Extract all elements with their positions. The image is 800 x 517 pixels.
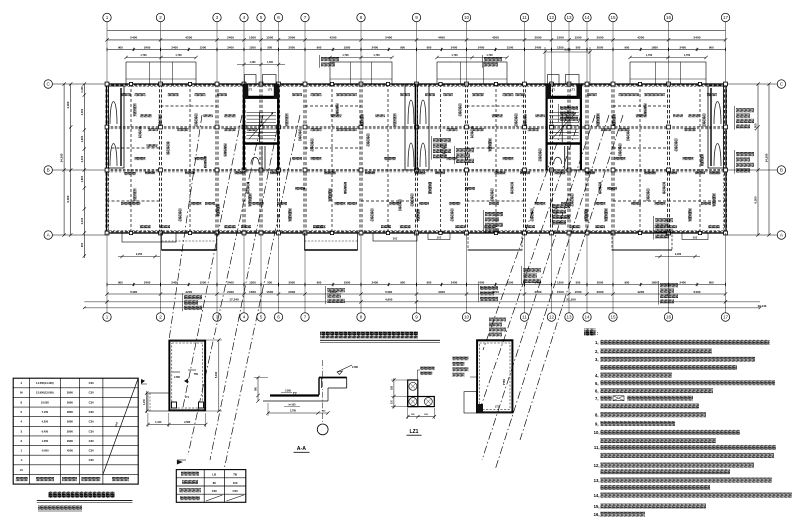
grid bubble 13 (bottom) [565,313,573,321]
bottom box shallow left [122,233,176,242]
stairwell ST2 corner blocks [546,84,551,98]
svg-text:1: 1 [106,15,109,20]
svg-text:1800: 1800 [344,45,351,49]
grid bubble 5 (top) [257,13,265,21]
svg-text:1500: 1500 [249,36,256,40]
svg-text:2: 2 [159,315,162,320]
svg-text:10,: 10, [594,430,600,435]
svg-text:6: 6 [277,15,280,20]
grid bubble 11 (bottom) [520,313,528,321]
svg-text:4: 4 [243,15,246,20]
bottom balcony deep 2 [305,233,358,250]
drawing title text [320,332,418,339]
svg-text:14,100: 14,100 [60,153,64,162]
stair detail 1 interior marks [172,371,180,373]
grid bubble 3 (bottom) [213,313,221,321]
grid bubble 1 (bottom) [103,313,111,321]
svg-text:LT1: LT1 [550,88,555,92]
svg-text:14: 14 [584,15,590,20]
svg-text:2400: 2400 [227,290,234,294]
stair detail 2 top text block [489,318,506,322]
shaft at grid 9 walls [405,84,429,170]
svg-text:4,: 4, [595,373,599,378]
dimension ticks+text bottom chain1 [106,283,108,286]
svg-text:6: 6 [277,315,280,320]
floor table title underline [37,499,133,501]
grid line 3 leader (bottom) [216,233,218,313]
row A leader (right) [726,234,777,236]
note line cont y471.6 [601,469,730,474]
grid line 7 leader (bottom) [304,233,306,313]
svg-text:-1: -1 [20,458,23,462]
stairwell ST1 lower landing arc [251,157,259,164]
svg-text:900: 900 [118,280,123,284]
svg-text:1500: 1500 [575,36,582,40]
svg-text:900: 900 [624,45,629,49]
grid bubble 17 (bottom) [721,313,729,321]
svg-text:1.350: 1.350 [42,439,49,443]
svg-text:C30: C30 [233,489,239,493]
svg-text:2000: 2000 [597,290,604,294]
grid bubble 6 (top) [274,13,282,21]
stair entry marks above ST2 [545,51,590,53]
svg-text:2A2: 2A2 [693,237,698,240]
svg-text:1800: 1800 [651,45,658,49]
grid line 12 leader (top) [551,22,553,84]
svg-text:6.450: 6.450 [42,429,49,433]
section A-A bottom dim [268,412,328,414]
left end shaft walls [109,86,125,168]
svg-text:2400: 2400 [451,280,458,284]
interior grid verticals dashed [105,84,107,233]
svg-text:LT1: LT1 [185,396,190,399]
grid bubble 7 (top) [301,13,309,21]
svg-text:1500: 1500 [575,290,582,294]
stairwell ST2 treads [549,112,579,114]
small table flag symbol [177,460,183,468]
grid line 13 leader (bottom) [568,233,570,313]
svg-text:2400: 2400 [451,45,458,49]
svg-text:C30: C30 [89,458,94,462]
svg-text:14,100: 14,100 [765,153,769,162]
floor table subtitle [38,506,82,510]
stair detail 1 inner dashed [172,343,203,408]
bottom balcony deep 1 [162,233,217,250]
svg-text:4,300: 4,300 [754,123,758,130]
grid line 11 leader (top) [524,22,526,84]
svg-text:2400: 2400 [227,280,234,284]
svg-text:1500: 1500 [557,36,564,40]
svg-text:2000: 2000 [288,36,295,40]
svg-text:-0.050: -0.050 [41,449,49,453]
stair detail 1 left dim [146,391,148,413]
row B leader (left) [53,169,107,171]
grid line 6 leader (top) [278,22,280,84]
partial beam row y=105 segments [161,105,218,107]
column LZ1 bottom dim [408,416,435,418]
svg-text:1,700: 1,700 [140,54,147,57]
shaft grid9 flue arc lower [408,143,414,167]
svg-text:1,100: 1,100 [80,86,84,93]
section A-A left dim [257,377,259,401]
svg-text:C30: C30 [89,420,94,424]
svg-text:LT1: LT1 [248,88,253,92]
svg-text:h=100: h=100 [289,403,297,406]
svg-text:C30: C30 [212,489,218,493]
grid bubble 12 (top) [547,13,555,21]
svg-text:1500: 1500 [557,290,564,294]
svg-text:7,: 7, [595,396,599,401]
wall row B dashed [107,169,727,171]
svg-text:LT1: LT1 [570,88,575,92]
wall row A dashed [107,231,727,233]
row bubble A (right) [777,231,785,239]
svg-text:5400: 5400 [385,36,392,40]
svg-text:2: 2 [159,15,162,20]
svg-text:LT1: LT1 [268,88,273,92]
row bubble C (left) [44,80,52,88]
extra annotation strips [121,93,131,96]
wall row C dashed [107,84,727,86]
svg-text:16: 16 [666,315,672,320]
svg-text:2850: 2850 [67,410,73,414]
svg-text:C30: C30 [89,429,94,433]
svg-text:8: 8 [360,315,363,320]
grid bubble 2 (top) [156,13,164,21]
grid line 15 leader (bottom) [612,233,614,313]
top balcony 1 dim [126,57,196,59]
svg-text:8: 8 [360,15,363,20]
svg-text:1500: 1500 [200,45,207,49]
svg-text:900: 900 [400,280,405,284]
svg-text:1500: 1500 [507,45,514,49]
grid bubble 8 (bottom) [357,313,365,321]
svg-text:1200: 1200 [249,280,256,284]
svg-text:12.950(13.000): 12.950(13.000) [36,391,54,395]
svg-text:17,240: 17,240 [229,297,239,301]
grid bubble 13 (top) [565,13,573,21]
beam annotation texts vertical [133,104,136,117]
svg-text:4200: 4200 [185,290,192,294]
bottom balcony deep 1 dim [118,256,160,258]
grid line 3 leader (top) [216,22,218,84]
svg-text:2400: 2400 [535,45,542,49]
svg-text:4200: 4200 [492,290,499,294]
svg-text:1,: 1, [595,340,599,345]
svg-text:4: 4 [243,315,246,320]
small table frame [176,470,246,503]
svg-text:4.250: 4.250 [42,420,49,424]
floor table column lines [28,378,30,484]
section A-A step wall [318,378,320,396]
grid line 1 leader (bottom) [106,233,108,313]
grid bubble 2 (bottom) [156,313,164,321]
svg-text:12: 12 [549,15,555,20]
svg-text:1500: 1500 [266,290,273,294]
note line cont y455.4 [601,453,774,458]
grid bubble 6 (bottom) [274,313,282,321]
svg-text:LZ1: LZ1 [410,429,419,435]
stairwell ST2 tread mid rail [561,113,563,143]
grid bubble 15 (bottom) [609,313,617,321]
row bubble C (right) [777,80,785,88]
grid bubble 17 (top) [721,13,729,21]
grid bubble 7 (bottom) [301,313,309,321]
row A leader (left) [53,234,107,236]
svg-text:C30: C30 [89,449,94,453]
grid bubble 16 (bottom) [664,313,672,321]
column LZ1 left dim [393,378,395,409]
svg-text:3: 3 [216,15,219,20]
svg-text:15: 15 [610,315,616,320]
dimension ticks+text bottom chain3 [105,300,108,303]
svg-text:500: 500 [267,280,272,284]
svg-text:1,700: 1,700 [342,54,349,57]
svg-text:4200: 4200 [637,36,644,40]
dimension chain line top-1 [107,30,726,32]
svg-text:C30: C30 [89,400,94,404]
small table texts [181,472,199,476]
stair detail 1 bottom dim [148,424,206,426]
note line cont y440.6 [601,438,716,443]
grid line 8 leader (top) [360,22,362,84]
svg-text:16: 16 [666,15,672,20]
svg-text:2400: 2400 [372,280,379,284]
grid line 4 leader (top) [243,22,245,84]
plan outer wall outline [107,84,727,233]
grid line 9 leader (top) [416,22,418,84]
svg-text:4200: 4200 [330,36,337,40]
grid line 16 leader (top) [668,22,670,84]
grid line 7 leader (top) [304,22,306,84]
svg-text:TB1: TB1 [194,373,199,376]
svg-text:4400: 4400 [438,290,445,294]
top balcony 3 dim [437,57,507,59]
row C leader (right) [726,83,777,85]
stairwell ST2 walls [546,84,582,170]
svg-text:6,300: 6,300 [754,196,758,203]
svg-text:1,700: 1,700 [175,54,182,57]
note line cont y487.3 [601,485,710,490]
svg-text:11,: 11, [594,445,600,450]
svg-text:1800: 1800 [651,280,658,284]
svg-text:14,: 14, [594,493,600,498]
grid bubble 14 (top) [583,13,591,21]
svg-text:49,140: 49,140 [758,304,767,308]
extra partition verticals [130,84,132,233]
bottom label box right [682,233,708,240]
svg-text:2,250: 2,250 [136,253,143,256]
grid bubble 10 (bottom) [462,313,470,321]
bottom balcony deep 3 [468,233,522,250]
svg-text:8,: 8, [595,413,599,418]
svg-text:2A2: 2A2 [437,237,442,240]
stair detail 1 annex box [148,393,169,411]
section A-A grid dashline and bubble [322,360,324,424]
row bubble A (left) [44,231,52,239]
grid line 14 leader (bottom) [586,233,588,313]
svg-text:3,: 3, [595,357,599,362]
grid bubble 16 (top) [664,13,672,21]
grid bubble 8 (top) [357,13,365,21]
top balcony 1 [126,62,196,84]
svg-text:1500: 1500 [200,280,207,284]
svg-text:900: 900 [427,45,432,49]
svg-text:2000: 2000 [597,280,604,284]
svg-text:1: 1 [106,315,109,320]
svg-text:10.050: 10.050 [41,400,49,404]
svg-text:1200: 1200 [557,45,564,49]
section A-A elevation flag [337,365,352,372]
svg-text:6,300: 6,300 [66,195,70,202]
svg-text:2400: 2400 [478,45,485,49]
right diagonal leader fan [483,115,567,350]
grid bubble 14 (bottom) [583,313,591,321]
small table diagonal slashes [206,495,222,501]
notes header fu-zhu [584,329,596,336]
stair detail 2 annex box [464,392,477,413]
grid line 15 leader (top) [612,22,614,84]
svg-text:12: 12 [549,315,555,320]
column squares at grid intersections [105,82,109,86]
svg-text:2400: 2400 [680,45,687,49]
dimension chain line bottom-4 full [84,307,760,309]
svg-text:16,: 16, [594,512,600,517]
grid bubble 4 (top) [240,13,248,21]
extra vertical annotation strips [139,126,142,138]
stair detail 2 inner dashed [480,343,511,410]
svg-text:9: 9 [415,15,418,20]
svg-text:1,100: 1,100 [155,421,162,424]
svg-text:13: 13 [566,15,572,20]
svg-text:2900: 2900 [67,429,73,433]
top balcony 3 [437,62,507,84]
dimension ticks+text bottom chain2 [105,292,108,295]
svg-text:1,800: 1,800 [80,175,84,182]
svg-text:80: 80 [213,481,217,485]
stairwell ST2 arrow [552,114,575,139]
svg-text:500: 500 [576,45,581,49]
grid bubble 9 (bottom) [412,313,420,321]
svg-text:4200: 4200 [637,290,644,294]
svg-text:B: B [780,168,783,173]
svg-text:PTB1: PTB1 [503,378,506,385]
shaft grid9 flue arc upper [408,100,414,124]
svg-text:9: 9 [415,315,418,320]
svg-text:2,780: 2,780 [290,409,297,412]
dimension chain line top-3 [107,48,726,50]
grid line 11 leader (bottom) [524,233,526,313]
svg-text:2400: 2400 [171,45,178,49]
svg-text:1,460: 1,460 [250,61,257,64]
svg-text:14.350(14.400): 14.350(14.400) [36,381,54,385]
grid bubble 9 (top) [412,13,420,21]
grid line 13 leader (top) [568,22,570,84]
grid line 5 leader (top) [260,22,262,84]
svg-text:10: 10 [464,315,470,320]
grid line 2 leader (bottom) [160,233,162,313]
svg-text:2.580: 2.580 [285,391,291,393]
svg-text:5400: 5400 [130,36,137,40]
left diagonal leader fan [169,115,202,340]
dimension chain line bottom-3 full [84,301,760,303]
stair detail 2 left text block [453,357,469,361]
svg-text:9,: 9, [595,421,599,426]
svg-text:1,500: 1,500 [267,61,274,64]
svg-text:2000: 2000 [288,290,295,294]
note line cont y406 [601,404,699,409]
svg-text:11: 11 [522,15,527,20]
grid line 10 leader (bottom) [466,233,468,313]
svg-text:2000: 2000 [535,36,542,40]
svg-text:1,700: 1,700 [451,54,458,57]
svg-text:2400: 2400 [227,45,234,49]
stairwell ST1 arrow [249,114,272,139]
svg-text:900: 900 [80,242,84,247]
svg-text:2900: 2900 [67,400,73,404]
svg-text:2900: 2900 [67,391,73,395]
stairwell ST2 lower landing arc [554,157,562,164]
svg-text:4200: 4200 [185,36,192,40]
svg-text:1200: 1200 [557,280,564,284]
svg-text:7: 7 [304,15,307,20]
dimension chain line top-2 [107,39,726,41]
stair detail 2 walls [477,340,514,413]
svg-text:C30: C30 [89,391,94,395]
top balcony 4 dim [630,57,706,59]
svg-text:LT1: LT1 [495,406,500,409]
svg-text:2,260: 2,260 [675,253,682,256]
grid bubble 11 (top) [520,13,528,21]
floor table row lines [13,387,138,389]
grid bubble 4 (bottom) [240,313,248,321]
grid line 17 leader (bottom) [725,233,727,313]
svg-text:13,: 13, [594,478,600,483]
dimension chain line bottom-1 [107,284,726,286]
svg-text:900: 900 [709,45,714,49]
grid line 6 leader (bottom) [278,233,280,313]
grid line 1 leader (top) [106,22,108,84]
grid line 12 leader (bottom) [551,233,553,313]
svg-text:J1: J1 [20,468,24,472]
stairwell ST1 treads [246,112,276,114]
svg-text:2,: 2, [595,349,599,354]
svg-text:2A2: 2A2 [393,238,398,241]
svg-text:900: 900 [317,280,322,284]
svg-text:4200: 4200 [330,290,337,294]
svg-text:1,700: 1,700 [684,54,691,57]
stairwell ST1 tread mid rail [259,113,261,143]
svg-text:5400: 5400 [694,290,701,294]
top balcony 2 dim [330,57,392,59]
grid line 2 leader (top) [160,22,162,84]
grid bubble 12 (bottom) [547,313,555,321]
svg-text:2000: 2000 [289,280,296,284]
column LZ1 section horizontal leg [408,397,435,407]
svg-text:2400: 2400 [372,45,379,49]
svg-text:1,450: 1,450 [143,398,146,404]
svg-text:7.150: 7.150 [42,410,49,414]
svg-text:4500: 4500 [67,449,73,453]
stairwell ST1 corner blocks [243,84,248,98]
grid bubble 5 (bottom) [257,313,265,321]
svg-text:1,700: 1,700 [373,54,380,57]
svg-text:2000: 2000 [597,45,604,49]
svg-text:5: 5 [260,15,263,20]
bottom label box g9 [428,233,450,240]
stair detail 1 right dim [218,340,220,411]
svg-text:2900: 2900 [67,420,73,424]
